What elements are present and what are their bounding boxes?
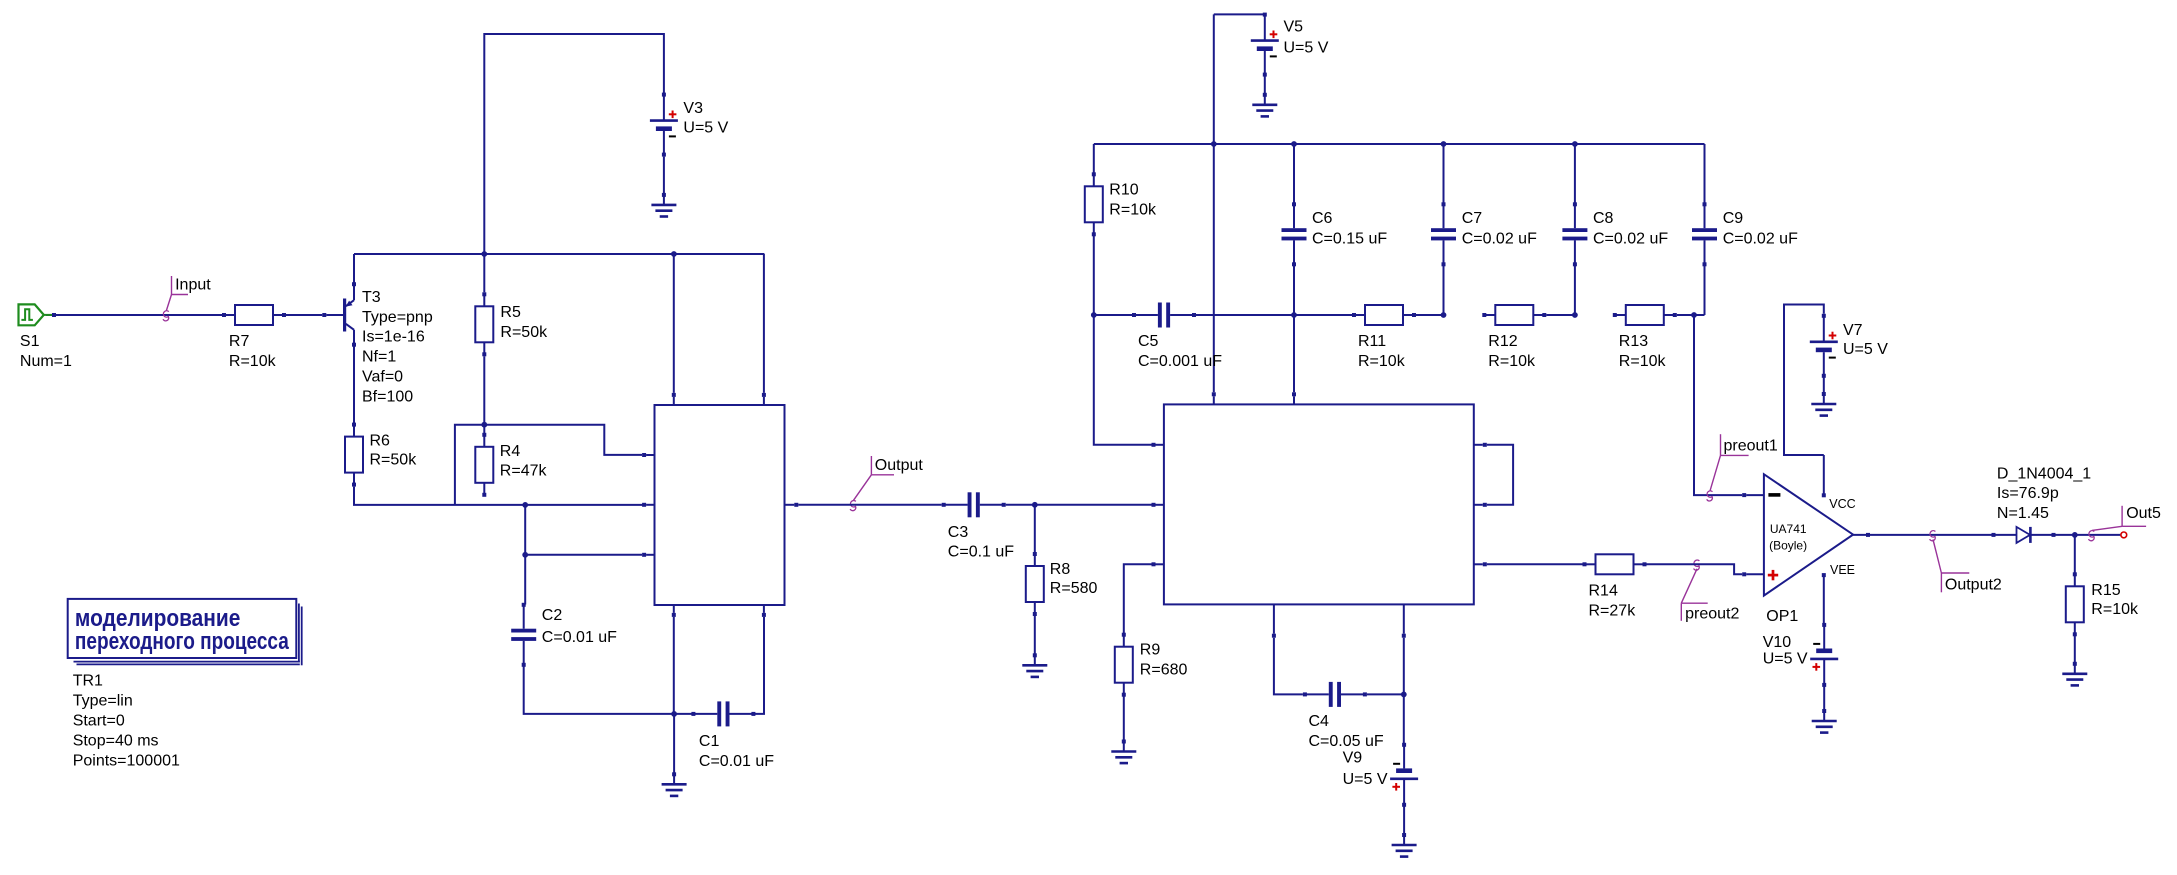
net label Output bbox=[850, 456, 923, 511]
wire bbox=[1367, 693, 1402, 695]
svg-text:C=0.001 uF: C=0.001 uF bbox=[1138, 353, 1222, 370]
svg-text:R4: R4 bbox=[500, 443, 521, 460]
svg-text:preout2: preout2 bbox=[1685, 606, 1739, 623]
wire bbox=[1823, 685, 1825, 711]
wire opamp output bbox=[1853, 533, 1991, 537]
node bus-C8 bbox=[1572, 141, 1578, 147]
svg-text:R=10k: R=10k bbox=[1358, 353, 1406, 370]
+5V rail wire bbox=[354, 253, 764, 255]
svg-text:TR1: TR1 bbox=[73, 673, 103, 690]
wire bbox=[354, 487, 644, 505]
svg-text:R=47k: R=47k bbox=[500, 463, 548, 480]
node Out5 junction bbox=[2072, 532, 2078, 538]
box2 pins bbox=[1152, 392, 1487, 637]
svg-text:N=1.45: N=1.45 bbox=[1997, 505, 2049, 522]
svg-text:C=0.02 uF: C=0.02 uF bbox=[1462, 230, 1537, 247]
wire bbox=[524, 665, 672, 714]
node bus-C7 bbox=[1441, 141, 1447, 147]
wire bbox=[1416, 314, 1442, 316]
node C6 row junction bbox=[1291, 312, 1297, 318]
bus wire bbox=[1094, 143, 1705, 145]
node box1 pin3 junction bbox=[522, 552, 528, 558]
capacitor C8 bbox=[1562, 202, 1668, 266]
wire bbox=[2074, 535, 2076, 574]
svg-text:C2: C2 bbox=[542, 607, 563, 624]
svg-text:R12: R12 bbox=[1488, 333, 1517, 350]
svg-text:переходного процесса: переходного процесса bbox=[75, 628, 289, 655]
wire bbox=[483, 425, 485, 435]
wire bbox=[353, 254, 355, 286]
ground bbox=[1022, 653, 1047, 677]
resistor R13 bbox=[1613, 305, 1677, 370]
wire bbox=[1094, 317, 1154, 445]
wire VCC path bbox=[1784, 305, 1824, 456]
svg-text:R=680: R=680 bbox=[1140, 662, 1188, 679]
wire bbox=[673, 254, 675, 393]
svg-text:Type=pnp: Type=pnp bbox=[362, 309, 433, 326]
wire bbox=[798, 504, 941, 506]
svg-text:R=10k: R=10k bbox=[229, 353, 277, 370]
resistor R10 bbox=[1085, 172, 1157, 236]
capacitor C6 bbox=[1282, 202, 1388, 266]
svg-text:Is=76.9p: Is=76.9p bbox=[1997, 485, 2059, 502]
wire bbox=[1704, 264, 1706, 315]
svg-text:Output: Output bbox=[875, 457, 924, 474]
svg-text:Is=1e-16: Is=1e-16 bbox=[362, 329, 425, 346]
svg-text:Output2: Output2 bbox=[1945, 577, 2002, 594]
svg-text:Out5: Out5 bbox=[2126, 505, 2161, 522]
wire bbox=[1094, 314, 1132, 316]
svg-text:V7: V7 bbox=[1843, 322, 1863, 339]
net label Input bbox=[163, 276, 211, 321]
wire bbox=[1704, 144, 1706, 204]
node R5-R4 junction bbox=[481, 422, 487, 428]
svg-text:R=27k: R=27k bbox=[1589, 603, 1637, 620]
wire bbox=[674, 713, 693, 715]
svg-text:R7: R7 bbox=[229, 333, 250, 350]
wire preout1 bbox=[1694, 315, 1742, 495]
svg-text:C7: C7 bbox=[1462, 210, 1483, 227]
node preout1 junction bbox=[1691, 312, 1697, 318]
svg-text:C=0.05 uF: C=0.05 uF bbox=[1309, 733, 1384, 750]
wire V5 column bbox=[1213, 14, 1215, 392]
svg-text:V3: V3 bbox=[683, 100, 703, 117]
wire bbox=[1443, 144, 1445, 204]
capacitor C1 bbox=[691, 701, 774, 770]
svg-text:U=5 V: U=5 V bbox=[1343, 771, 1388, 788]
svg-text:C=0.01 uF: C=0.01 uF bbox=[699, 753, 774, 770]
battery V3 bbox=[650, 93, 729, 157]
net label Out5 bbox=[2089, 505, 2161, 541]
wire bbox=[2074, 634, 2076, 664]
wire bbox=[1742, 572, 1764, 576]
svg-text:Nf=1: Nf=1 bbox=[362, 349, 396, 366]
wire bbox=[763, 254, 765, 393]
node C2 junction bbox=[522, 502, 528, 508]
wire bbox=[1574, 144, 1576, 204]
svg-text:R=10k: R=10k bbox=[2091, 601, 2139, 618]
wire bbox=[525, 554, 642, 556]
svg-text:C=0.15 uF: C=0.15 uF bbox=[1312, 230, 1387, 247]
svg-text:D_1N4004_1: D_1N4004_1 bbox=[1997, 465, 2091, 482]
svg-text:C=0.1 uF: C=0.1 uF bbox=[948, 544, 1014, 561]
wire bbox=[1214, 13, 1265, 15]
wire bbox=[2056, 534, 2121, 536]
wire bbox=[663, 157, 665, 195]
svg-text:R14: R14 bbox=[1589, 583, 1618, 600]
wire bbox=[1546, 314, 1573, 316]
svg-text:Start=0: Start=0 bbox=[73, 713, 125, 730]
wire bbox=[524, 604, 526, 606]
svg-text:U=5 V: U=5 V bbox=[1843, 341, 1888, 358]
wire bbox=[1403, 638, 1405, 693]
node rail-box1 bbox=[671, 251, 677, 257]
wire bbox=[1034, 614, 1036, 655]
ground bbox=[1252, 93, 1277, 117]
resistor R15 bbox=[2066, 572, 2139, 636]
wire C4 left bbox=[1274, 638, 1303, 695]
svg-text:Input: Input bbox=[175, 277, 211, 294]
svg-text:preout1: preout1 bbox=[1724, 437, 1778, 454]
wire bbox=[484, 34, 664, 254]
net label preout1 bbox=[1707, 434, 1778, 501]
battery V5 bbox=[1251, 13, 1329, 77]
wire bbox=[1443, 264, 1445, 313]
capacitor C4 bbox=[1303, 682, 1384, 750]
wire R9 branch bbox=[1124, 564, 1154, 634]
svg-text:Type=lin: Type=lin bbox=[73, 693, 133, 710]
transistor T3 bbox=[322, 282, 433, 405]
svg-text:C1: C1 bbox=[699, 733, 720, 750]
svg-text:R10: R10 bbox=[1109, 181, 1138, 198]
svg-text:OP1: OP1 bbox=[1766, 608, 1798, 625]
svg-text:R=50k: R=50k bbox=[500, 324, 548, 341]
node V9 junction bbox=[1401, 692, 1407, 698]
wire bbox=[1093, 234, 1095, 313]
svg-text:U=5 V: U=5 V bbox=[1284, 39, 1329, 56]
wire bbox=[1196, 314, 1292, 316]
net label preout2 bbox=[1681, 560, 1739, 622]
svg-text:C5: C5 bbox=[1138, 333, 1159, 350]
title box bbox=[68, 599, 302, 665]
svg-text:C9: C9 bbox=[1723, 210, 1744, 227]
resistor R8 bbox=[1026, 552, 1098, 616]
wire bbox=[1093, 144, 1095, 174]
wire bbox=[1823, 376, 1825, 394]
resistor R6 bbox=[345, 423, 417, 487]
wire bbox=[1034, 505, 1036, 554]
svg-text:R15: R15 bbox=[2091, 582, 2120, 599]
node R10-C5 junction bbox=[1091, 312, 1097, 318]
node R8 junction bbox=[1032, 502, 1038, 508]
battery V7 bbox=[1810, 314, 1888, 378]
svg-text:C=0.01 uF: C=0.01 uF bbox=[542, 629, 617, 646]
node C7 row junction bbox=[1441, 312, 1447, 318]
capacitor C2 bbox=[511, 603, 617, 667]
wire bbox=[1403, 694, 1405, 744]
node C1 junction bbox=[671, 711, 677, 717]
simulation TR1 text bbox=[73, 673, 180, 770]
svg-text:(Boyle): (Boyle) bbox=[1769, 539, 1807, 553]
resistor R7 bbox=[222, 305, 286, 370]
resistor R4 bbox=[475, 433, 547, 497]
wire bbox=[455, 425, 642, 505]
node C8 row junction bbox=[1572, 312, 1578, 318]
svg-text:S1: S1 bbox=[20, 333, 40, 350]
ground bbox=[1392, 833, 1417, 857]
wire bbox=[483, 356, 485, 423]
feedback loop wire bbox=[1487, 445, 1513, 505]
svg-text:R=10k: R=10k bbox=[1619, 353, 1667, 370]
ground bbox=[1111, 740, 1136, 764]
node rail-R5 bbox=[481, 251, 487, 257]
wire bbox=[1123, 695, 1125, 742]
ground bbox=[662, 772, 687, 796]
ground bbox=[2062, 662, 2087, 686]
wire bbox=[1264, 75, 1266, 95]
svg-text:R=10k: R=10k bbox=[1488, 353, 1536, 370]
svg-text:C8: C8 bbox=[1593, 210, 1614, 227]
capacitor C9 bbox=[1692, 202, 1798, 266]
resistor R5 bbox=[475, 292, 548, 356]
capacitor C7 bbox=[1431, 202, 1537, 266]
svg-text:R6: R6 bbox=[370, 432, 391, 449]
wire bbox=[1742, 493, 1764, 497]
wire bbox=[1293, 264, 1295, 392]
svg-text:Vaf=0: Vaf=0 bbox=[362, 369, 403, 386]
wire bbox=[673, 617, 675, 714]
wire bbox=[1006, 504, 1152, 506]
svg-text:V9: V9 bbox=[1343, 749, 1363, 766]
capacitor C5 bbox=[1132, 303, 1222, 371]
svg-text:R8: R8 bbox=[1050, 561, 1071, 578]
wire bbox=[1574, 264, 1576, 313]
svg-text:R9: R9 bbox=[1140, 642, 1161, 659]
svg-text:R=50k: R=50k bbox=[370, 452, 418, 469]
svg-text:T3: T3 bbox=[362, 289, 381, 306]
wire bbox=[673, 714, 675, 774]
subcircuit box2 bbox=[1164, 404, 1474, 604]
ground bbox=[1811, 392, 1836, 416]
svg-text:R11: R11 bbox=[1358, 333, 1386, 350]
wire bbox=[754, 617, 765, 714]
svg-text:C=0.02 uF: C=0.02 uF bbox=[1723, 230, 1798, 247]
node bus-V5 bbox=[1211, 141, 1217, 147]
wire bbox=[524, 505, 526, 605]
wire bbox=[1403, 805, 1405, 835]
subcircuit box1 bbox=[655, 405, 785, 605]
node bus-C6 bbox=[1291, 141, 1297, 147]
resistor R14 bbox=[1583, 554, 1647, 619]
net label Output2 bbox=[1930, 531, 2002, 594]
wire bbox=[286, 314, 322, 316]
wire R14 row bbox=[1487, 563, 1583, 565]
wire bbox=[46, 314, 223, 316]
svg-text:R=10k: R=10k bbox=[1109, 201, 1157, 218]
svg-text:UA741: UA741 bbox=[1770, 522, 1807, 536]
svg-text:Num=1: Num=1 bbox=[20, 353, 72, 370]
svg-text:U=5 V: U=5 V bbox=[683, 119, 728, 136]
svg-text:Points=100001: Points=100001 bbox=[73, 753, 180, 770]
ground bbox=[651, 193, 676, 217]
svg-text:R=580: R=580 bbox=[1050, 580, 1098, 597]
svg-text:R13: R13 bbox=[1619, 333, 1648, 350]
svg-text:C=0.02 uF: C=0.02 uF bbox=[1593, 230, 1668, 247]
op-amp OP1 bbox=[1764, 455, 1856, 625]
svg-text:R5: R5 bbox=[500, 304, 521, 321]
svg-text:C3: C3 bbox=[948, 524, 969, 541]
svg-text:Bf=100: Bf=100 bbox=[362, 389, 413, 406]
battery V9 bbox=[1343, 743, 1419, 807]
svg-text:C6: C6 bbox=[1312, 210, 1333, 227]
resistor R9 bbox=[1115, 633, 1188, 697]
box1 pins bbox=[642, 393, 798, 617]
wire bbox=[1293, 144, 1295, 204]
wire bbox=[1294, 314, 1352, 316]
pulse source S1 bbox=[19, 304, 73, 370]
resistor R12 bbox=[1482, 305, 1546, 370]
svg-text:VCC: VCC bbox=[1829, 497, 1855, 511]
wire bbox=[1647, 564, 1743, 574]
battery V10 bbox=[1763, 623, 1839, 687]
wire bbox=[1677, 314, 1705, 316]
svg-text:V5: V5 bbox=[1284, 19, 1304, 36]
svg-text:U=5 V: U=5 V bbox=[1763, 651, 1808, 668]
capacitor C3 bbox=[942, 492, 1015, 560]
svg-text:C4: C4 bbox=[1309, 713, 1330, 730]
wire bbox=[483, 254, 485, 292]
svg-text:VEE: VEE bbox=[1830, 563, 1855, 577]
open node Out5 bbox=[2121, 532, 2127, 538]
ground bbox=[1812, 709, 1837, 733]
diode D_1N4004_1 bbox=[1992, 465, 2092, 543]
resistor R11 bbox=[1352, 305, 1416, 370]
svg-text:V10: V10 bbox=[1763, 634, 1792, 651]
wire bbox=[353, 343, 355, 425]
svg-text:Stop=40 ms: Stop=40 ms bbox=[73, 733, 159, 750]
